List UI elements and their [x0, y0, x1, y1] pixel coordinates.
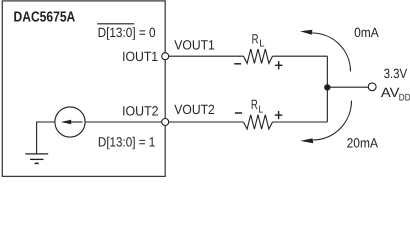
svg-text:3.3V: 3.3V: [384, 66, 408, 81]
svg-text:20mA: 20mA: [347, 135, 378, 150]
label DAC5675A: [14, 9, 76, 25]
arrow arc 0mA: [300, 30, 350, 72]
DAC box outline U1: [2, 1, 165, 177]
svg-text:D[13:0] = 1: D[13:0] = 1: [98, 135, 155, 150]
label 3.3V: [384, 66, 408, 81]
label D[13:0] = 0: [98, 25, 156, 40]
vertical wire joining both outputs: [326, 56, 328, 122]
label D[13:0] = 1: [98, 135, 155, 150]
svg-text:DD: DD: [399, 93, 410, 104]
svg-text:D[13:0] = 0: D[13:0] = 0: [98, 25, 156, 40]
pin IOUT1 terminal: [162, 53, 169, 60]
wire RL2 to right corner: [273, 121, 328, 123]
junction node dot: [324, 84, 330, 90]
pin IOUT2 terminal: [162, 119, 169, 126]
AVDD terminal circle: [368, 83, 376, 91]
svg-text:VOUT1: VOUT1: [174, 38, 215, 53]
label VOUT1: [174, 38, 215, 53]
svg-text:R: R: [251, 97, 258, 112]
wire current source to ground stem: [37, 122, 55, 154]
overline over D[13:0]: [97, 23, 134, 25]
label AVDD: [381, 85, 410, 104]
label IOUT2: [122, 103, 158, 118]
wire IOUT2 to resistor RL2: [169, 121, 244, 123]
label IOUT1: [122, 49, 158, 64]
resistor RL1 zigzag: [244, 49, 273, 63]
svg-text:L: L: [258, 104, 263, 115]
plus sign at RL2: [275, 111, 283, 119]
wire node to AVDD terminal: [327, 86, 368, 88]
svg-text:AV: AV: [381, 85, 400, 100]
resistor RL2 zigzag: [244, 115, 273, 129]
svg-text:L: L: [259, 38, 265, 49]
svg-text:0mA: 0mA: [354, 25, 379, 40]
svg-text:VOUT2: VOUT2: [174, 102, 215, 117]
ground: [25, 154, 48, 164]
svg-text:IOUT2: IOUT2: [122, 103, 158, 118]
label RL2 value R_L: [251, 97, 264, 115]
plus sign at RL1: [275, 61, 282, 69]
label VOUT2: [174, 102, 215, 117]
label 20mA: [347, 135, 378, 150]
svg-text:R: R: [252, 31, 259, 46]
wire IOUT1 to resistor RL1: [169, 55, 244, 57]
svg-text:DAC5675A: DAC5675A: [14, 9, 76, 25]
minus sign at RL2: [235, 112, 242, 114]
minus sign at RL1: [234, 63, 241, 65]
arrow arc 20mA: [300, 101, 351, 144]
label RL1 value R_L: [252, 31, 265, 49]
wire current source to IOUT2 pin: [85, 121, 162, 123]
current source I1: [55, 107, 85, 137]
label 0mA: [354, 25, 379, 40]
svg-text:IOUT1: IOUT1: [122, 49, 158, 64]
wire RL1 to right corner: [273, 55, 328, 57]
